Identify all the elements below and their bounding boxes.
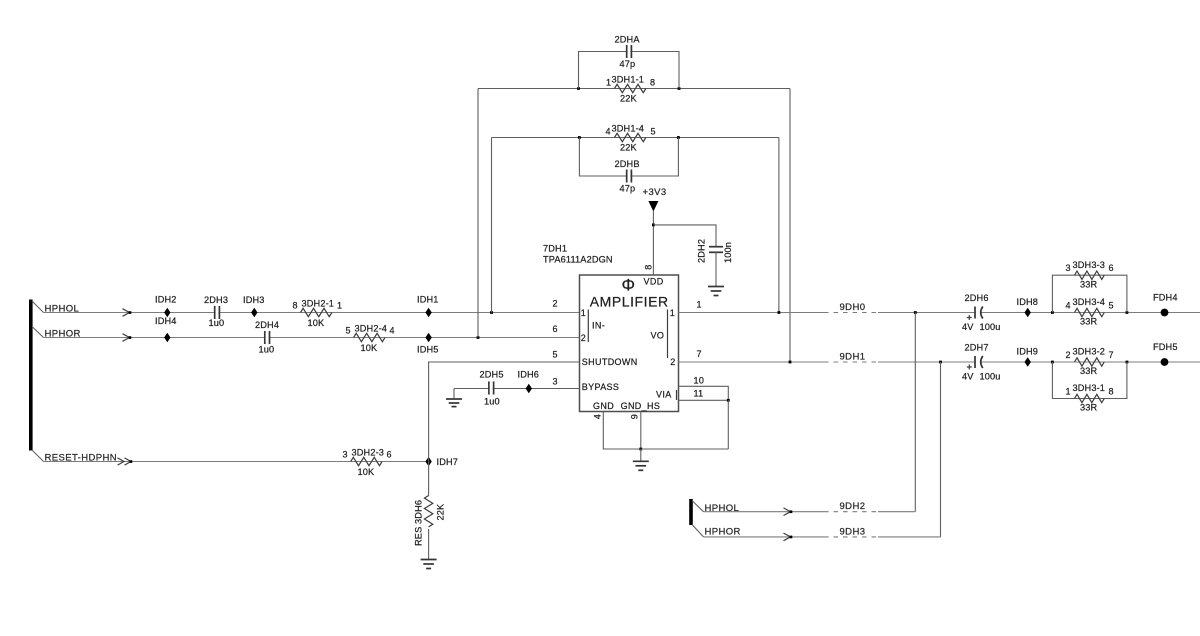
junction at pin9 ground xyxy=(639,448,642,451)
svg-text:2DHA: 2DHA xyxy=(615,35,641,45)
svg-text:IDH1: IDH1 xyxy=(417,295,439,305)
svg-text:8: 8 xyxy=(293,300,298,310)
svg-text:33R: 33R xyxy=(1080,366,1098,376)
svg-text:3DH2-3: 3DH2-3 xyxy=(352,448,385,458)
svg-text:22K: 22K xyxy=(620,143,638,153)
wire VDD to 2DH2 xyxy=(653,225,716,247)
wire ground bus to VIA leg xyxy=(641,448,729,450)
svg-text:2DH4: 2DH4 xyxy=(255,320,279,330)
svg-text:3DH3-4: 3DH3-4 xyxy=(1073,297,1106,307)
op-amp U1 7DH1 TPA6111A2DGN body xyxy=(543,244,679,412)
svg-text:2DHB: 2DHB xyxy=(615,159,640,169)
wire VDD pin 8 up to +3V3 xyxy=(652,211,654,275)
svg-text:22K: 22K xyxy=(436,503,446,521)
wire HPHOL2 line xyxy=(704,511,825,513)
junction loop2 cap right xyxy=(677,136,680,139)
svg-text:9DH2: 9DH2 xyxy=(840,501,866,512)
node FDH4 xyxy=(1153,292,1178,316)
wire loop1 left leg down to line2 xyxy=(477,89,479,338)
resistor 3DH2-1 10K xyxy=(293,299,343,328)
capacitor 2DHA 47p xyxy=(615,35,641,70)
svg-text:IDH8: IDH8 xyxy=(1017,297,1039,307)
resistor 3DH1-1 22K xyxy=(606,74,655,103)
svg-text:3DH3-2: 3DH3-2 xyxy=(1073,347,1106,357)
capacitor 2DHB 47p xyxy=(615,159,640,194)
svg-text:100u: 100u xyxy=(980,322,1001,332)
svg-text:IDH4: IDH4 xyxy=(155,316,177,326)
svg-text:3: 3 xyxy=(343,449,348,459)
pin arrow double on RESET-HDPHN xyxy=(118,458,133,465)
wire HPHOR2 line xyxy=(704,536,825,538)
svg-text:GND_HS: GND_HS xyxy=(621,401,661,411)
net 9DH0 dashed segment xyxy=(824,302,878,313)
svg-text:9: 9 xyxy=(629,414,639,419)
wire loop2 right leg down to VO1 line xyxy=(778,138,780,313)
node IDH6 xyxy=(518,370,540,394)
wire VIA pin 11 xyxy=(679,399,729,401)
svg-text:47p: 47p xyxy=(620,59,636,69)
svg-text:IDH6: IDH6 xyxy=(518,370,540,380)
capacitor 2DH4 1u0 xyxy=(255,320,279,354)
svg-text:2: 2 xyxy=(1066,350,1071,360)
svg-text:3DH3-3: 3DH3-3 xyxy=(1073,260,1106,270)
svg-text:6: 6 xyxy=(387,449,392,459)
svg-text:10K: 10K xyxy=(361,343,379,353)
svg-text:10: 10 xyxy=(694,376,705,386)
svg-text:33R: 33R xyxy=(1080,403,1098,413)
svg-text:22K: 22K xyxy=(620,94,638,104)
svg-text:1: 1 xyxy=(337,300,342,310)
capacitor 2DH2 100n xyxy=(697,239,734,263)
connector J1 (left header bar) xyxy=(29,300,33,451)
wire 2DHA branch xyxy=(579,52,680,89)
junction 3DH3 left on 9DH0 xyxy=(1051,311,1054,314)
power +3V3 xyxy=(643,187,667,212)
svg-text:3DH1-4: 3DH1-4 xyxy=(612,123,645,133)
svg-text:8: 8 xyxy=(1109,386,1114,396)
svg-text:HPHOR: HPHOR xyxy=(705,526,741,537)
pin arrow on HPHOR2 xyxy=(784,533,793,541)
wire 2DHB branch xyxy=(579,138,678,177)
wire 2DH2 to ground xyxy=(715,252,717,286)
svg-text:5: 5 xyxy=(346,325,351,335)
wire VIA pin 10 xyxy=(679,386,729,400)
wire HPHOL stub from connector xyxy=(32,301,44,313)
svg-text:IDH2: IDH2 xyxy=(155,295,177,305)
svg-text:4V: 4V xyxy=(962,322,974,332)
svg-text:4: 4 xyxy=(1066,300,1071,310)
svg-text:9DH1: 9DH1 xyxy=(840,352,866,363)
svg-text:AMPLIFIER: AMPLIFIER xyxy=(590,294,669,310)
svg-text:2DH2: 2DH2 xyxy=(697,239,707,263)
svg-text:100n: 100n xyxy=(723,242,733,263)
resistor RES 3DH6 22K (vertical) xyxy=(414,496,446,547)
junction loop1 cap left xyxy=(577,87,580,90)
wire loop1 right leg down to VO2 line xyxy=(789,89,791,363)
wire 2DH5 to ground xyxy=(453,389,455,400)
resistor 3DH3-3 33R xyxy=(1066,260,1114,290)
wire HPHOR stub from connector xyxy=(32,327,44,338)
pin 4 GND wire xyxy=(603,412,641,450)
svg-text:FDH5: FDH5 xyxy=(1153,342,1178,352)
wire VO pin2 output line solid left part xyxy=(679,361,825,363)
svg-text:3DH1-1: 3DH1-1 xyxy=(612,74,645,84)
svg-text:1: 1 xyxy=(581,308,586,318)
svg-text:Φ: Φ xyxy=(622,276,636,295)
wire 9DH3 riser xyxy=(940,362,942,537)
wire VIA leg down to ground bus xyxy=(727,400,729,449)
svg-text:5: 5 xyxy=(651,127,656,137)
node IDH2 xyxy=(155,295,177,318)
svg-text:IDH9: IDH9 xyxy=(1017,346,1039,356)
svg-text:4: 4 xyxy=(390,325,395,335)
resistor 3DH2-3 10K xyxy=(343,448,392,477)
svg-text:2DH7: 2DH7 xyxy=(965,342,989,352)
svg-text:100u: 100u xyxy=(980,371,1001,381)
node IDH3 xyxy=(243,295,265,317)
svg-text:TPA6111A2DGN: TPA6111A2DGN xyxy=(543,255,613,265)
wire 3DH3-1 branch xyxy=(1052,362,1127,399)
wire 9DH3 to riser xyxy=(878,536,941,538)
svg-text:33R: 33R xyxy=(1080,317,1098,327)
svg-text:1u0: 1u0 xyxy=(209,318,225,328)
svg-text:4: 4 xyxy=(592,414,602,419)
pin 9 GND_HS wire xyxy=(640,412,642,450)
junction 9DH3 riser on 9DH1 xyxy=(939,361,942,364)
ground below 2DH2 xyxy=(708,287,724,296)
node IDH5 xyxy=(417,333,439,355)
wire VO1 output solid right part xyxy=(878,312,1200,314)
svg-text:7: 7 xyxy=(1109,350,1114,360)
capacitor 2DH7 4V 100u (polarized) xyxy=(962,342,1001,381)
svg-text:VDD: VDD xyxy=(644,277,664,287)
svg-text:IDH5: IDH5 xyxy=(417,344,439,354)
svg-text:1u0: 1u0 xyxy=(484,396,500,406)
node FDH5 xyxy=(1153,342,1178,366)
svg-text:6: 6 xyxy=(553,324,558,334)
ground below 3DH6 xyxy=(421,560,437,569)
resistor 3DH3-4 33R xyxy=(1066,297,1114,327)
svg-text:IDH3: IDH3 xyxy=(243,295,265,305)
resistor 3DH3-1 33R xyxy=(1066,383,1114,413)
resistor 3DH3-2 33R xyxy=(1066,347,1114,377)
node IDH7 xyxy=(425,457,458,467)
svg-text:GND: GND xyxy=(593,401,614,411)
svg-text:SHUTDOWN: SHUTDOWN xyxy=(582,357,638,367)
pin arrow on HPHOR xyxy=(123,334,132,342)
svg-text:5: 5 xyxy=(1109,300,1114,310)
svg-text:IN-: IN- xyxy=(592,320,605,330)
svg-text:5: 5 xyxy=(553,350,558,360)
resistor 3DH1-4 22K xyxy=(606,123,656,152)
junction loop2 right leg on VO1 xyxy=(778,311,781,314)
node IDH1 xyxy=(417,295,439,318)
net 9DH1 dashed segment xyxy=(824,352,878,363)
wire net RESET-HDPHN xyxy=(44,461,429,463)
svg-text:8: 8 xyxy=(650,78,655,88)
node IDH4 xyxy=(155,316,177,342)
svg-text:2: 2 xyxy=(581,333,586,343)
svg-text:33R: 33R xyxy=(1080,279,1098,289)
svg-text:2: 2 xyxy=(553,299,558,309)
wire 9DH2 riser xyxy=(914,313,916,512)
junction 3DH3-1 left on 9DH1 xyxy=(1051,361,1054,364)
svg-text:3: 3 xyxy=(553,377,558,387)
wire BYPASS to cap 2DH5 xyxy=(454,388,580,390)
svg-text:VO: VO xyxy=(651,331,665,341)
wire loop2 left leg down to line1 xyxy=(491,138,493,313)
junction loop2 left leg on line1 xyxy=(490,311,493,314)
wire feedback loop2 main (pins 4-5 net) xyxy=(492,137,779,139)
svg-text:4: 4 xyxy=(606,127,611,137)
junction loop2 cap left xyxy=(578,136,581,139)
junction 3DH3 right on 9DH0 xyxy=(1126,311,1129,314)
wire 3DH6 to ground xyxy=(428,529,430,560)
junction 3DH3-1 right on 9DH1 xyxy=(1126,361,1129,364)
pin arrow on HPHOL2 xyxy=(784,508,793,516)
svg-text:9DH0: 9DH0 xyxy=(840,302,866,313)
svg-text:+3V3: +3V3 xyxy=(643,187,667,198)
wire HPHOR2 stub xyxy=(692,525,704,537)
wire net HPHOR line 2 xyxy=(44,337,580,339)
svg-text:7: 7 xyxy=(697,349,702,359)
svg-text:10K: 10K xyxy=(358,467,376,477)
svg-text:4V: 4V xyxy=(962,371,974,381)
svg-text:47p: 47p xyxy=(620,184,636,194)
wire feedback loop1 main (pins 1-8 net) xyxy=(478,88,790,90)
svg-text:2DH5: 2DH5 xyxy=(480,370,504,380)
junction 9DH2 riser on 9DH0 xyxy=(914,311,917,314)
svg-text:8: 8 xyxy=(643,264,653,269)
pin arrow on HPHOL xyxy=(123,309,132,317)
wire net HPHOL line 1 xyxy=(44,312,580,314)
svg-text:1: 1 xyxy=(697,300,702,310)
junction loop1 cap right xyxy=(678,87,681,90)
junction loop1 right leg on VO2 xyxy=(789,361,792,364)
svg-text:2DH6: 2DH6 xyxy=(965,293,989,303)
svg-text:1u0: 1u0 xyxy=(259,344,275,354)
svg-text:11: 11 xyxy=(694,389,704,399)
wire VO pin1 output line solid left part xyxy=(679,312,825,314)
capacitor 2DH3 1u0 xyxy=(204,295,228,328)
svg-text:RES 3DH6: RES 3DH6 xyxy=(414,500,424,546)
svg-text:2DH3: 2DH3 xyxy=(204,295,228,305)
svg-text:BYPASS: BYPASS xyxy=(582,382,619,392)
connector J2 (bottom header bar) xyxy=(689,499,693,525)
ground at 2DH5 xyxy=(446,399,462,407)
svg-text:FDH4: FDH4 xyxy=(1153,292,1178,302)
junction loop1 left leg on line2 xyxy=(477,336,480,339)
svg-text:7DH1: 7DH1 xyxy=(543,244,567,254)
svg-text:9DH3: 9DH3 xyxy=(840,526,866,537)
capacitor 2DH6 4V 100u (polarized) xyxy=(962,293,1001,332)
node IDH8 xyxy=(1017,297,1039,318)
svg-text:HPHOR: HPHOR xyxy=(45,329,81,340)
svg-text:RESET-HDPHN: RESET-HDPHN xyxy=(45,453,118,464)
resistor 3DH2-4 10K xyxy=(346,324,395,353)
svg-text:1: 1 xyxy=(670,308,675,318)
junction VDD node xyxy=(652,224,655,227)
wire 9DH2 to riser xyxy=(878,511,915,513)
svg-text:3DH2-1: 3DH2-1 xyxy=(302,299,335,309)
wire RESET-HDPHN stub from connector xyxy=(32,450,44,462)
wire 3DH3-3 branch xyxy=(1052,275,1127,312)
wire SHUTDOWN vertical to IDH7 xyxy=(429,362,580,496)
svg-text:2: 2 xyxy=(670,357,675,367)
svg-text:1: 1 xyxy=(1066,386,1071,396)
node IDH9 xyxy=(1017,346,1039,367)
svg-text:3: 3 xyxy=(1066,263,1071,273)
svg-text:3DH2-4: 3DH2-4 xyxy=(355,324,388,334)
svg-text:6: 6 xyxy=(1109,263,1114,273)
net 9DH2 dashed segment xyxy=(824,501,878,512)
svg-text:IDH7: IDH7 xyxy=(437,457,459,467)
svg-text:VIA: VIA xyxy=(656,389,672,399)
capacitor 2DH5 1u0 xyxy=(480,370,504,407)
svg-text:HPHOL: HPHOL xyxy=(45,304,80,315)
svg-text:3DH3-1: 3DH3-1 xyxy=(1073,383,1106,393)
wire VO2 output solid right part xyxy=(878,361,1200,363)
ground below amplifier xyxy=(633,449,649,470)
net 9DH3 dashed segment xyxy=(824,526,878,537)
junction VIA leg xyxy=(727,399,730,402)
wire HPHOL2 stub xyxy=(692,501,704,512)
svg-text:10K: 10K xyxy=(308,318,326,328)
